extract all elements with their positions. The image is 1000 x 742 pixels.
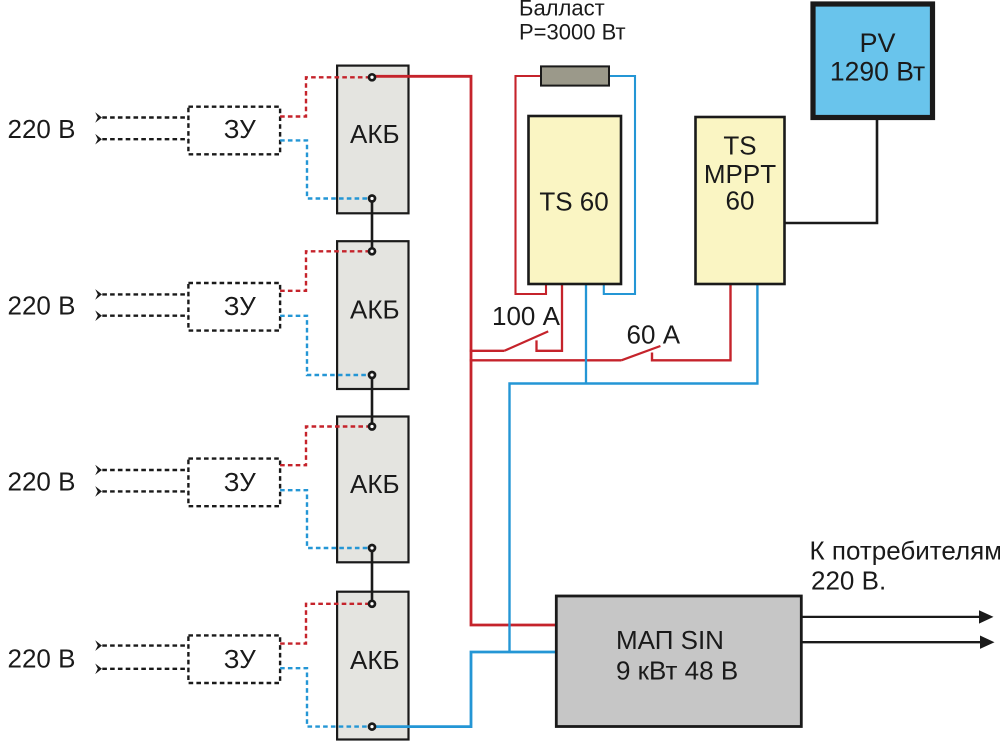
svg-text:60 А: 60 А xyxy=(627,320,681,350)
node AKB2 top terminal xyxy=(369,248,375,254)
controller TS60 xyxy=(529,116,622,284)
wire series link AKB1 bottom to AKB2 top xyxy=(371,199,374,252)
svg-text:220 В: 220 В xyxy=(8,467,76,497)
svg-text:АКБ: АКБ xyxy=(350,645,400,675)
charger ZU4 xyxy=(188,635,280,683)
node AKB1 top terminal xyxy=(369,74,375,80)
breaker 60A blade xyxy=(621,346,660,360)
node AKB4 bottom terminal xyxy=(369,724,375,730)
wire battery negative bus (blue) AKB4 bottom terminal to MAP SIN input xyxy=(372,652,557,727)
svg-text:ЗУ: ЗУ xyxy=(224,644,256,674)
wire charger ZU4 positive (red dashed) to AKB4 top terminal xyxy=(280,604,372,644)
svg-text:220 В.: 220 В. xyxy=(811,566,886,596)
wire PV panel to TS MPPT input xyxy=(785,120,878,223)
wire AC line 1 row 3 with arrowhead xyxy=(95,465,102,476)
wire AC output line 1 with arrowhead xyxy=(802,616,981,618)
svg-text:220 В: 220 В xyxy=(8,114,76,144)
battery AKB3 xyxy=(337,417,408,563)
wire charger ZU3 negative (blue dashed) to AKB3 bottom terminal xyxy=(280,490,372,548)
battery AKB4 xyxy=(337,592,408,740)
svg-text:TS: TS xyxy=(723,131,756,161)
breaker 100A: lead from positive bus xyxy=(470,350,505,352)
wire AC line 1 row 2 with arrowhead xyxy=(95,289,102,300)
wire AC line 2 row 2 with arrowhead xyxy=(95,310,102,321)
wire TS60 red output pin down to 100A breaker fixed contact xyxy=(537,282,563,351)
wire charger ZU2 negative (blue dashed) to AKB2 bottom terminal xyxy=(280,316,372,375)
svg-text:9 кВт 48 В: 9 кВт 48 В xyxy=(616,656,738,686)
wire AC line 2 row 4 with arrowhead xyxy=(95,664,102,675)
wire charger ZU1 positive (red dashed) to AKB1 top terminal xyxy=(280,77,372,116)
wire charger ZU4 negative (blue dashed) to AKB4 bottom terminal xyxy=(280,668,372,726)
wire positive bus to 60A breaker xyxy=(470,359,622,361)
wire series link AKB3 bottom to AKB4 top xyxy=(371,548,374,604)
charger ZU1 xyxy=(188,107,280,155)
wire series link AKB2 bottom to AKB3 top xyxy=(371,375,374,427)
svg-text:Балласт: Балласт xyxy=(519,0,605,21)
svg-text:ЗУ: ЗУ xyxy=(224,114,256,144)
svg-text:Р=3000 Вт: Р=3000 Вт xyxy=(519,20,626,45)
wire AC line 1 row 1 with arrowhead xyxy=(95,112,102,123)
svg-text:К потребителям: К потребителям xyxy=(810,536,1000,566)
charger ZU3 xyxy=(188,459,280,507)
charger ZU2 xyxy=(188,283,280,331)
wire AC line 2 row 3 with arrowhead xyxy=(95,486,102,497)
svg-text:ЗУ: ЗУ xyxy=(224,291,256,321)
resistor ballast body xyxy=(541,66,609,85)
wire TS60 blue pin down to negative bus xyxy=(585,282,587,384)
wire ballast right lead (blue) to TS60 bottom pin xyxy=(604,76,635,294)
wire charger ZU1 negative (blue dashed) to AKB1 bottom terminal xyxy=(280,140,372,198)
wire battery positive bus (red) AKB1 top terminal to MAP SIN input xyxy=(372,76,557,625)
svg-text:АКБ: АКБ xyxy=(350,119,400,149)
battery AKB2 xyxy=(337,241,408,389)
svg-text:АКБ: АКБ xyxy=(350,295,400,325)
wire charger ZU3 positive (red dashed) to AKB3 top terminal xyxy=(280,427,372,466)
svg-text:1290 Вт: 1290 Вт xyxy=(830,57,925,87)
svg-text:220 В: 220 В xyxy=(8,291,76,321)
node AKB1 bottom terminal xyxy=(369,196,375,202)
svg-text:TS 60: TS 60 xyxy=(539,187,608,217)
svg-text:PV: PV xyxy=(859,28,895,58)
svg-text:MPPT: MPPT xyxy=(704,159,776,189)
wire AC output line 2 with arrowhead xyxy=(802,641,982,643)
controller TS MPPT 60 xyxy=(696,117,785,284)
svg-text:220 В: 220 В xyxy=(8,644,76,674)
node AKB2 bottom terminal xyxy=(369,372,375,378)
breaker 100A blade xyxy=(504,331,548,350)
wire negative bus branch: MAP junction up and right to TS MPPT blue pin xyxy=(510,282,758,652)
node AKB4 top terminal xyxy=(369,601,375,607)
node AKB3 bottom terminal xyxy=(369,545,375,551)
svg-text:60: 60 xyxy=(726,186,755,216)
wire charger ZU2 positive (red dashed) to AKB2 top terminal xyxy=(280,251,372,290)
svg-text:МАП SIN: МАП SIN xyxy=(616,625,724,655)
svg-text:ЗУ: ЗУ xyxy=(224,467,256,497)
wire ballast left lead (red) to TS60 bottom pin xyxy=(516,76,547,294)
wire AC line 2 row 1 with arrowhead xyxy=(95,134,102,145)
solar panel PV xyxy=(813,4,933,118)
breaker 60A fixed contact and wire to TS MPPT red pin xyxy=(652,282,731,360)
svg-text:100 А: 100 А xyxy=(492,301,561,331)
inverter MAP SIN xyxy=(556,596,801,727)
battery AKB1 xyxy=(337,66,408,214)
wire AC line 1 row 4 with arrowhead xyxy=(95,640,102,651)
node AKB3 top terminal xyxy=(369,424,375,430)
svg-text:АКБ: АКБ xyxy=(350,469,400,499)
